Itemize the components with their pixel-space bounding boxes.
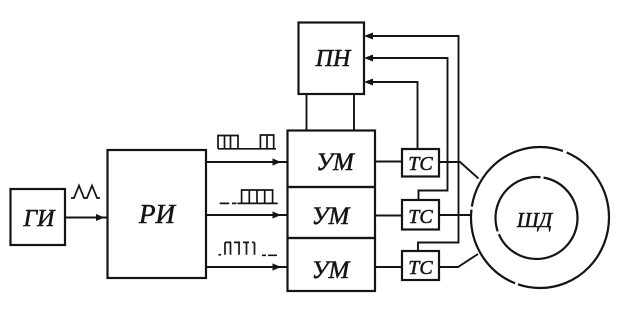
waveform: phase 1 pulse bursts: [218, 135, 276, 149]
block PN (voltage converter): [299, 23, 365, 95]
wire UM2 to TS2: [375, 215, 402, 217]
block UM3 (power amplifier 3): [288, 238, 376, 291]
block TS2 (current sensor 2): [402, 200, 439, 230]
wire GI to RI: [65, 214, 107, 221]
svg-text:УМ: УМ: [316, 149, 355, 176]
feedback wire TS3 to PN: [364, 33, 459, 252]
svg-text:УМ: УМ: [312, 257, 351, 284]
svg-text:ТС: ТС: [408, 153, 433, 175]
feedback wire TS1 to PN: [364, 79, 418, 150]
wire UM1 to TS1: [375, 161, 402, 163]
waveform: GI output triangular pulses: [71, 186, 100, 199]
wire PN to UM1 left strap: [306, 94, 308, 131]
waveform: phase 3 pulse burst: [219, 242, 278, 255]
block TS1 (current sensor 1): [402, 149, 439, 177]
svg-text:ПН: ПН: [315, 46, 352, 72]
wire UM3 to TS3: [375, 266, 402, 268]
block TS3 (current sensor 3): [402, 251, 439, 280]
block UM2 (power amplifier 2): [288, 187, 376, 238]
svg-text:ТС: ТС: [408, 257, 433, 279]
motor ShD (stepper motor): [471, 147, 609, 288]
svg-text:ГИ: ГИ: [23, 206, 57, 232]
svg-text:ТС: ТС: [408, 206, 433, 228]
wire PN to UM1 right strap: [353, 94, 355, 131]
svg-text:ШД: ШД: [516, 208, 554, 232]
svg-text:УМ: УМ: [312, 203, 351, 230]
wire TS1 to motor: [439, 162, 479, 179]
block GI (pulse generator): [11, 189, 66, 245]
waveform: phase 2 pulse burst: [220, 190, 278, 203]
svg-text:РИ: РИ: [138, 199, 176, 229]
wire RI to UM2: [206, 211, 288, 218]
wire RI to UM1: [206, 158, 288, 165]
block RI (pulse distributor): [108, 150, 207, 278]
wire RI to UM3: [206, 263, 288, 270]
block UM1 (power amplifier 1): [288, 131, 376, 188]
wire TS2 to motor: [439, 214, 471, 216]
feedback wire TS2 to PN: [364, 55, 448, 201]
wire TS3 to motor: [439, 254, 478, 267]
